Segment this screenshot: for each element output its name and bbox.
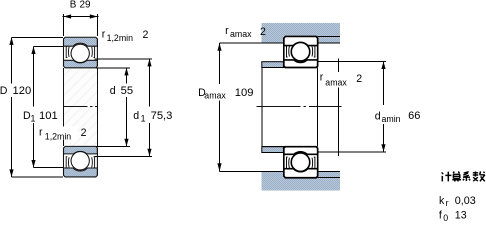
label r 1,2min 2 (bottom) + leader bbox=[36, 127, 78, 141]
svg-text:29: 29 bbox=[80, 0, 91, 11]
svg-text:amax: amax bbox=[325, 78, 347, 88]
svg-text:B: B bbox=[70, 0, 77, 11]
svg-text:1,2min: 1,2min bbox=[107, 33, 134, 43]
svg-text:0,03: 0,03 bbox=[455, 195, 476, 207]
svg-text:k: k bbox=[439, 195, 445, 207]
bore hatch bbox=[64, 68, 97, 146]
dimension d1 75,3 bbox=[95, 59, 152, 157]
dimension D 120 bbox=[12, 37, 64, 177]
svg-text:66: 66 bbox=[408, 110, 420, 122]
bearing bottom section bbox=[64, 146, 98, 177]
svg-text:0: 0 bbox=[443, 213, 448, 222]
svg-text:120: 120 bbox=[13, 85, 32, 97]
svg-text:amax: amax bbox=[204, 91, 226, 101]
right bearing sections bbox=[284, 36, 318, 67]
svg-text:f: f bbox=[439, 209, 442, 221]
svg-text:55: 55 bbox=[121, 85, 133, 97]
svg-text:2: 2 bbox=[81, 127, 87, 139]
housing block bottom bbox=[262, 171, 341, 191]
svg-text:2: 2 bbox=[260, 26, 266, 38]
svg-text:r: r bbox=[225, 25, 229, 37]
svg-text:13: 13 bbox=[455, 209, 467, 221]
svg-text:d: d bbox=[110, 85, 116, 97]
计算系数 (drawn strokes) bbox=[442, 171, 485, 181]
bearing top section bbox=[64, 37, 98, 68]
dimension Damax 109 bbox=[220, 43, 262, 171]
balls right bbox=[291, 42, 310, 61]
svg-text:75,3: 75,3 bbox=[151, 110, 173, 122]
dimension: B 29 bbox=[63, 14, 99, 36]
centerline right bbox=[257, 106, 342, 108]
shaft faces / surfaces bbox=[261, 68, 263, 147]
svg-text:amin: amin bbox=[382, 114, 401, 124]
svg-text:101: 101 bbox=[39, 110, 58, 122]
dimension damin 66 bbox=[317, 61, 386, 151]
svg-text:109: 109 bbox=[235, 87, 254, 99]
算 bbox=[452, 171, 461, 181]
dimension d 55 bbox=[96, 68, 130, 147]
svg-text:2: 2 bbox=[356, 73, 362, 85]
centerline left bbox=[64, 106, 98, 108]
数 bbox=[473, 171, 485, 181]
svg-text:amax: amax bbox=[230, 29, 252, 39]
svg-text:1,2min: 1,2min bbox=[45, 131, 72, 141]
bore side walls bbox=[64, 68, 98, 146]
svg-text:2: 2 bbox=[143, 29, 149, 41]
shaft shoulder strips (outlined) bbox=[262, 62, 284, 68]
housing block top bbox=[262, 23, 341, 43]
系 bbox=[463, 172, 470, 181]
svg-text:d: d bbox=[375, 111, 381, 123]
svg-text:r: r bbox=[446, 198, 449, 208]
svg-text:r: r bbox=[320, 72, 324, 84]
svg-text:1: 1 bbox=[141, 114, 146, 124]
dimension D1 101 bbox=[34, 46, 64, 167]
balls left bbox=[71, 44, 89, 62]
right view black lines bbox=[262, 36, 341, 177]
svg-text:D: D bbox=[0, 85, 8, 97]
计 bbox=[442, 172, 452, 182]
svg-text:d: d bbox=[133, 110, 139, 122]
svg-text:1: 1 bbox=[31, 114, 36, 124]
svg-text:r: r bbox=[102, 29, 106, 41]
svg-text:r: r bbox=[39, 127, 43, 139]
